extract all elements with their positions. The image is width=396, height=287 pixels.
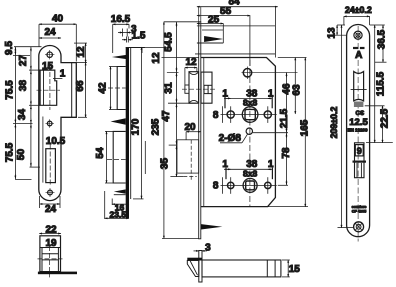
dim 25 [197, 23, 223, 25]
bottom screw hole (phillips) [354, 222, 364, 232]
main vertical centerline [249, 60, 251, 206]
bracket inner verticals [41, 248, 43, 272]
svg-text:12.5: 12.5 [349, 117, 368, 128]
upper group: dim 1 / 38 / 1 [223, 97, 273, 123]
hub dim 12 [185, 68, 197, 85]
flange inner line [71, 63, 73, 118]
latch guide box top [202, 29, 223, 31]
top lip wedge (black) [112, 55, 128, 60]
deadbolt slot [46, 149, 56, 183]
faceplate centerline [357, 26, 359, 242]
top latch bolt (black wedge) [204, 36, 223, 42]
svg-text:3: 3 [205, 243, 211, 254]
svg-text:115.5: 115.5 [375, 71, 386, 96]
dim 3 (bar thickness) [118, 29, 132, 37]
svg-text:55: 55 [220, 6, 232, 17]
backing plate line [130, 48, 132, 200]
bracket outline [40, 236, 61, 272]
svg-text:47: 47 [161, 110, 172, 122]
svg-text:10.5: 10.5 [46, 136, 66, 147]
svg-text:16.5: 16.5 [111, 14, 131, 25]
hub tube (left of plate) [189, 72, 199, 104]
svg-text:CF 4305: CF 4305 [352, 210, 367, 214]
latch faceplate cross piece [199, 251, 202, 283]
dim 22 [39, 233, 61, 235]
bracket centerlines [49, 246, 51, 277]
follower housing (right of plate) [201, 72, 212, 103]
top hole centerline ticks [242, 72, 298, 74]
svg-text:20: 20 [184, 122, 196, 133]
foot top line [114, 194, 126, 196]
svg-text:22.5: 22.5 [380, 108, 391, 128]
9 stamp box [355, 145, 363, 156]
dim 24 top [39, 37, 61, 39]
svg-text:1: 1 [222, 88, 228, 99]
slot centerline [49, 145, 51, 187]
svg-text:40: 40 [52, 14, 64, 25]
strike plate bottom screw hole [48, 190, 53, 195]
follower hub front [355, 143, 365, 178]
upper left hole [227, 111, 234, 118]
dim 16.5 [113, 24, 129, 53]
svg-text:9: 9 [357, 146, 362, 156]
svg-text:cerniere: cerniere [352, 205, 367, 209]
svg-text:31: 31 [164, 82, 175, 94]
svg-text:66: 66 [75, 80, 86, 92]
dim 16 [112, 199, 129, 206]
faceplate extension up [198, 7, 200, 22]
lower group: dim 1 / 38 / 1 [223, 168, 273, 194]
lower right hole [265, 182, 271, 188]
lower left hole [228, 182, 234, 188]
dim 24+-0.2 [337, 16, 385, 25]
latch cutout [40, 70, 57, 105]
door edge line 1 [197, 25, 276, 27]
svg-text:8: 8 [213, 181, 219, 192]
svg-text:EN 12209: EN 12209 [347, 127, 368, 132]
bottom latch wedge (black) [201, 224, 222, 229]
svg-text:25: 25 [208, 15, 220, 26]
door edge line 3 [195, 53, 275, 55]
svg-text:54: 54 [95, 147, 106, 159]
dim chain 54.5 / 31 / 47 / 35 [168, 22, 197, 177]
middle dim column: 235 and 12 [131, 22, 199, 239]
upper pocket centerline [108, 87, 126, 89]
svg-text:1: 1 [268, 159, 274, 170]
svg-text:1: 1 [268, 88, 274, 99]
cutout centerline cross [37, 89, 61, 91]
svg-text:15: 15 [289, 264, 301, 275]
slot fold line [42, 117, 44, 183]
dim 12 right [74, 43, 87, 63]
svg-text:50: 50 [16, 149, 27, 161]
dim 66 [78, 63, 87, 118]
right dim chain: 46 / 21.5 / 78 [253, 58, 307, 186]
lower holes centerline [221, 184, 277, 186]
svg-text:84: 84 [228, 0, 240, 8]
svg-text:12: 12 [185, 57, 197, 68]
lower pocket centerline [107, 159, 126, 161]
lock case outline [201, 58, 276, 207]
dim 55 [197, 16, 250, 66]
dim 13 [336, 25, 338, 35]
cylinder housing rect (hidden) [177, 140, 199, 173]
svg-text:78: 78 [281, 147, 292, 159]
dim 23.5 [105, 191, 129, 219]
svg-text:63: 63 [292, 84, 303, 96]
dim 170 [133, 47, 145, 199]
roller latch front [354, 72, 364, 101]
svg-text:9.5: 9.5 [4, 41, 15, 55]
upper holes centerline [221, 114, 277, 116]
latch wedge (black) [111, 118, 126, 125]
lower lip wedge (black) [114, 189, 126, 193]
top screw hole (phillips) [354, 31, 362, 39]
dim 84 [197, 7, 278, 58]
dim 40 [39, 24, 76, 61]
svg-text:38: 38 [18, 80, 29, 92]
svg-text:19: 19 [45, 238, 57, 249]
dim 42 [109, 67, 117, 110]
dim chain left inner: 27 / 38 / 34 / 50 [29, 47, 40, 167]
dim 22.5 [365, 106, 393, 143]
svg-text:2-Ø8: 2-Ø8 [219, 133, 242, 144]
svg-text:1: 1 [222, 159, 228, 170]
faceplate bar (black) [126, 48, 129, 219]
case inner wall [203, 58, 205, 207]
faceplate outline [347, 25, 370, 237]
lower pocket box [113, 131, 126, 183]
top fixing hole [243, 69, 251, 77]
svg-text:A: A [355, 50, 362, 61]
dim 24 bottom [40, 196, 60, 208]
latch head black strip [187, 258, 202, 261]
svg-text:170: 170 [131, 118, 142, 135]
svg-text:15: 15 [42, 61, 54, 72]
dim 209+-0.2 [338, 25, 354, 228]
bracket base plate (black) [38, 272, 77, 275]
upper follower [242, 107, 258, 123]
maker logo stamp [353, 47, 358, 49]
strike plate top screw hole [47, 52, 52, 57]
label 1 with tick [53, 78, 62, 80]
svg-text:235: 235 [150, 118, 161, 135]
dim 165 [304, 58, 306, 207]
svg-text:75.5: 75.5 [5, 80, 16, 100]
latch bolt body [202, 260, 281, 277]
bracket inner top line [40, 247, 61, 249]
svg-text:21.5: 21.5 [279, 108, 290, 128]
case bottom extension right [268, 206, 308, 208]
svg-text:24±0.2: 24±0.2 [345, 5, 372, 15]
svg-text:27: 27 [18, 55, 29, 67]
svg-text:24: 24 [45, 204, 57, 215]
svg-text:42: 42 [98, 82, 109, 94]
dim 54 [105, 131, 113, 183]
latch cutout fold line [43, 70, 45, 105]
svg-text:165: 165 [300, 119, 311, 136]
svg-text:1.5: 1.5 [132, 30, 146, 41]
svg-text:24: 24 [44, 27, 56, 38]
hub centerline [182, 88, 217, 90]
svg-text:209±0.2: 209±0.2 [329, 107, 339, 139]
latch head outline [187, 261, 199, 277]
svg-text:13: 13 [326, 27, 337, 39]
svg-text:35: 35 [160, 158, 171, 170]
bracket inner horizontals [42, 253, 58, 255]
dim 15 [282, 260, 290, 277]
svg-text:12: 12 [76, 46, 87, 58]
dim 36.5 [375, 25, 387, 62]
dim 63 [294, 58, 296, 114]
dim 20 [186, 132, 201, 140]
svg-text:75.5: 75.5 [5, 142, 16, 162]
svg-text:1: 1 [60, 69, 66, 80]
svg-text:54.5: 54.5 [164, 32, 175, 52]
svg-text:22: 22 [45, 225, 57, 236]
cylinder hole 2-d8 [246, 128, 252, 134]
svg-text:23.5: 23.5 [110, 210, 127, 220]
upper pocket box [117, 67, 126, 110]
bracket section view (bottom left) [38, 225, 78, 278]
svg-text:12: 12 [151, 52, 162, 64]
upper right hole [264, 111, 271, 118]
dim 1.5 [122, 37, 133, 43]
svg-text:34: 34 [17, 109, 28, 121]
door edge line 2 [197, 42, 223, 44]
svg-text:8: 8 [213, 110, 219, 121]
svg-text:36.5: 36.5 [376, 29, 387, 49]
dim chain left outer: 9.5 / 75.5 / 75.5 [13, 47, 42, 180]
bar top edge [126, 47, 145, 49]
lock faceplate (edge view) [199, 22, 201, 239]
dim 115.5 [374, 25, 376, 143]
strike plate outline (view A) [39, 46, 77, 201]
strike plate middle hole [47, 121, 52, 126]
lower follower [243, 178, 257, 192]
